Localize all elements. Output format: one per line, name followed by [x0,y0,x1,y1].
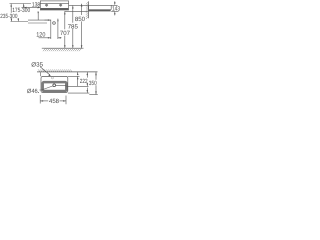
dim 235-300 lower seg [10,18,12,21]
shelf top ext line [69,4,89,6]
side view wall [87,1,89,18]
basin top ext [68,75,80,77]
plan view dark band [41,8,69,10]
mid dim line at 87.3 [86,72,88,78]
right dims [56,72,98,95]
mid reference drop line [37,13,39,20]
svg-text:Ø46: Ø46 [27,88,38,95]
dim 707 line [64,12,66,30]
basin left connector [39,72,41,76]
arrows top-left [10,4,50,22]
120 ext line right [57,19,59,39]
dim 175-300 upper seg [23,4,25,8]
shelf bottom ext line [65,10,89,12]
350 dim line at 96 [95,72,97,80]
floor hatch ticks [43,49,81,52]
wall hatch ticks [38,69,72,71]
143 dim [111,1,118,15]
svg-text:707: 707 [60,30,71,37]
basin outer rect [41,76,68,92]
120 dim line right [58,37,62,39]
120 ext line left [50,20,52,39]
side view dark bar [89,10,111,11]
bowl thick band [43,82,67,91]
basin bottom ext [68,92,89,94]
dim 785 line [72,6,74,23]
rail bottom ref line [28,19,48,21]
458 dim [40,95,66,104]
svg-text:235-300: 235-300 [0,13,18,20]
plan hole 1 [45,4,62,7]
svg-text:222: 222 [80,78,88,85]
dim 175-300 lower seg [17,18,19,21]
svg-text:143: 143 [112,6,120,13]
222 dim line at 77.7 [77,72,79,75]
tap hole [51,77,53,79]
120 dim line left [39,37,51,39]
floor line [42,47,84,49]
svg-text:785: 785 [68,24,79,31]
dim 850 line [81,4,83,15]
bottom ref line left [11,21,29,23]
ref line to 120 ext [45,19,51,21]
svg-text:138: 138 [32,2,41,9]
svg-text:458: 458 [49,98,60,105]
svg-text:Ø35: Ø35 [31,61,43,68]
drain hole [53,84,56,87]
svg-text:350: 350 [89,80,97,87]
svg-text:850: 850 [75,16,86,23]
lower ref line [28,22,47,24]
side view shelf glass [89,5,112,9]
drain-to-bowl line + mid ext [56,85,67,87]
dim 235-300 upper seg [10,4,12,13]
plan hole 2 [60,4,62,6]
top ref line y3.5 [10,3,32,5]
lowest ext [89,94,98,96]
wall line [37,71,98,73]
mount point circle [53,22,56,25]
plan view rect [40,1,68,10]
svg-text:120: 120 [36,32,46,39]
138 dim line [22,7,41,9]
